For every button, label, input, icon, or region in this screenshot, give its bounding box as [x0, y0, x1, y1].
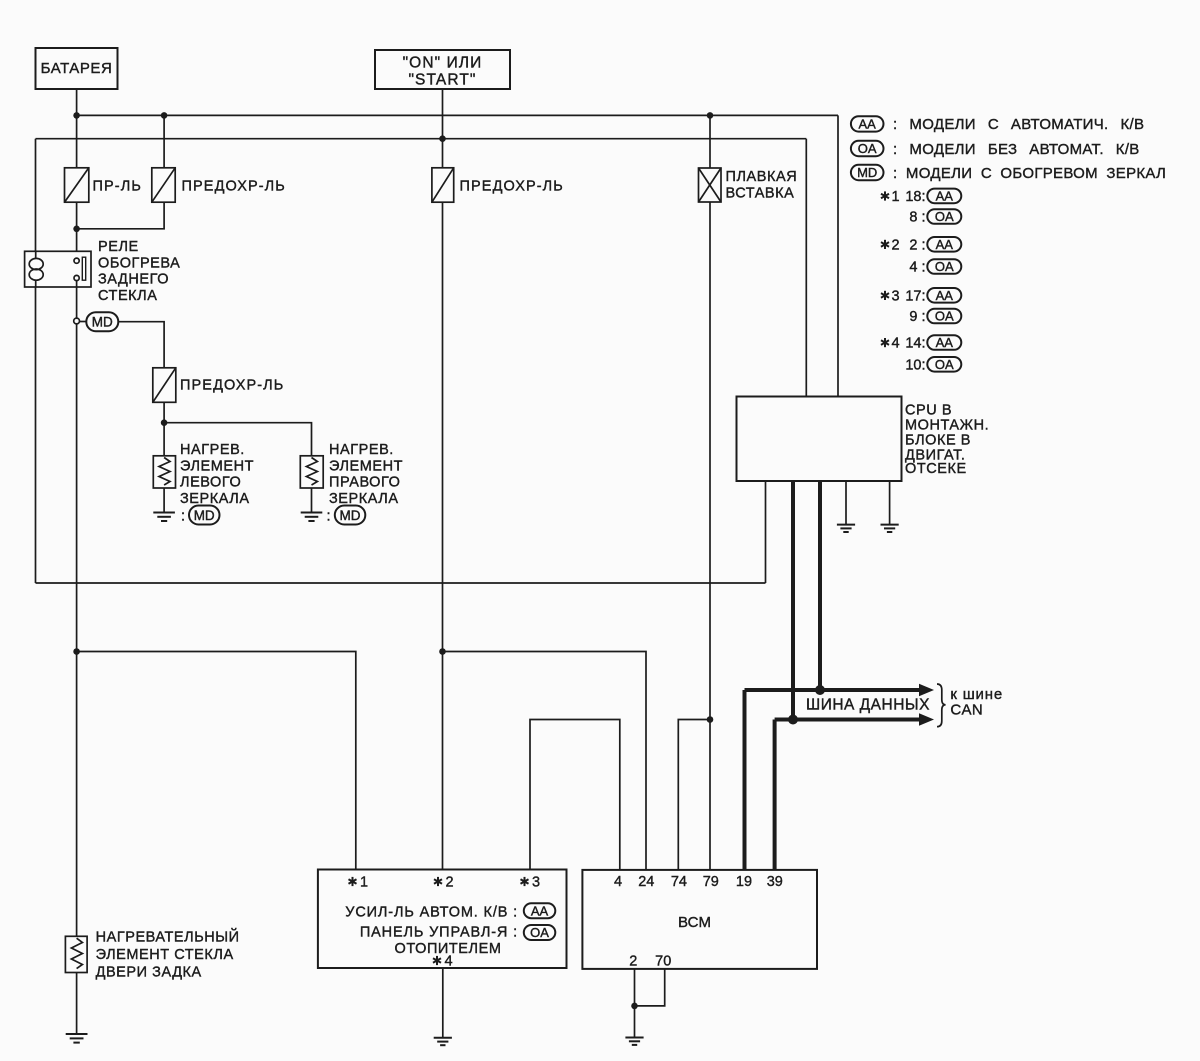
- svg-text:17:: 17:: [905, 288, 925, 304]
- curly brace CAN: [937, 684, 946, 727]
- wire net amp pin3 to BCM pin4: [530, 720, 620, 870]
- wire main defogger feed down: [76, 324, 78, 937]
- wire MD branch to mirror fuse: [118, 322, 164, 368]
- MD oval tag at relay: [86, 312, 118, 331]
- star legend 2: [881, 240, 889, 249]
- svg-text:ЗЕРКАЛА: ЗЕРКАЛА: [180, 491, 250, 507]
- svg-text:4: 4: [445, 954, 453, 970]
- wire rear element ground lead: [76, 973, 78, 1035]
- wire bottom return horizontal: [36, 582, 766, 584]
- svg-text:MD: MD: [92, 315, 113, 330]
- svg-text:ПРЕДОХР-ЛЬ: ПРЕДОХР-ЛЬ: [180, 378, 284, 394]
- fuse F3 PREDOHR-L ignition: [432, 168, 454, 202]
- fuse F2 PREDOHR-L: [152, 168, 175, 202]
- svg-text:1: 1: [360, 875, 368, 891]
- wire CAN upper drop to BCM pin19: [743, 690, 747, 870]
- svg-text:AA: AA: [936, 288, 954, 303]
- legend pin3 AA oval: [927, 288, 961, 303]
- svg-text:НАГРЕВ.: НАГРЕВ.: [180, 442, 245, 458]
- star amp pin2: [434, 877, 442, 886]
- svg-text:10:: 10:: [905, 357, 925, 373]
- ground amp: [434, 1038, 452, 1045]
- node junction defogger feed to amp: [73, 648, 80, 655]
- svg-text:ПРЕДОХР-ЛЬ: ПРЕДОХР-ЛЬ: [182, 179, 286, 195]
- ignition box ON/START: [375, 50, 510, 89]
- svg-text:OA: OA: [935, 309, 954, 324]
- wire branch to right mirror: [164, 423, 311, 456]
- svg-text:ПЛАВКАЯ: ПЛАВКАЯ: [726, 169, 798, 185]
- relay rear window defogger: [25, 251, 91, 287]
- svg-text:СТЕКЛА: СТЕКЛА: [98, 288, 157, 304]
- legend AA oval: [851, 116, 884, 131]
- legend pin2 AA oval: [927, 237, 961, 252]
- wire ignition drop: [442, 89, 444, 139]
- svg-text:19: 19: [736, 874, 752, 890]
- arrowhead CAN upper: [919, 684, 934, 696]
- legend MD oval: [851, 165, 884, 180]
- amplifier box A/C amp: [318, 870, 567, 969]
- star amp pin3: [521, 877, 529, 886]
- star legend 4: [881, 338, 889, 347]
- svg-text:2: 2: [629, 954, 637, 970]
- wire jog to BCM pin74: [678, 720, 710, 870]
- svg-text:НАГРЕВАТЕЛЬНЫЙ: НАГРЕВАТЕЛЬНЫЙ: [96, 928, 240, 946]
- svg-text:БАТАРЕЯ: БАТАРЕЯ: [41, 60, 113, 77]
- svg-text:74: 74: [671, 874, 687, 890]
- svg-text:AA: AA: [936, 335, 954, 350]
- wire branch to amp pin *1: [77, 652, 356, 870]
- svg-text:ОТСЕКЕ: ОТСЕКЕ: [905, 461, 967, 477]
- ground left mirror: [153, 513, 175, 522]
- svg-text:14:: 14:: [905, 336, 925, 352]
- wire right mirror ground lead: [311, 488, 313, 513]
- node junction CAN-L: [788, 715, 798, 725]
- wire CPU ground lead 1: [845, 481, 847, 525]
- wire CPU pin riser: [765, 481, 767, 583]
- svg-text:"ON" ИЛИ: "ON" ИЛИ: [403, 55, 483, 72]
- svg-text:AA: AA: [531, 903, 549, 918]
- svg-text:ПР-ЛЬ: ПР-ЛЬ: [93, 179, 142, 195]
- svg-text:2: 2: [892, 237, 900, 253]
- node junction CAN-H: [815, 685, 825, 695]
- svg-text::: :: [327, 509, 331, 525]
- svg-text:ПАНЕЛЬ УПРАВЛ-Я :: ПАНЕЛЬ УПРАВЛ-Я :: [360, 925, 518, 941]
- arrowhead CAN lower: [919, 713, 934, 725]
- fuse F1 PR-L: [65, 168, 89, 202]
- node junction battery bus at F2: [161, 112, 168, 119]
- relay coil: [29, 251, 43, 287]
- svg-text:CAN: CAN: [950, 702, 983, 719]
- wire bus2 horizontal ignition feed: [36, 138, 807, 140]
- svg-text:ЗЕРКАЛА: ЗЕРКАЛА: [329, 491, 399, 507]
- svg-text:24: 24: [638, 874, 654, 890]
- wire battery drop: [76, 89, 78, 115]
- node junction ignition branch to BCM pin24: [439, 648, 446, 655]
- resistor rear window heating element: [65, 936, 87, 972]
- wire CAN lower drop to BCM pin39: [773, 720, 777, 870]
- fusible link FL: [699, 168, 722, 202]
- svg-text:"START": "START": [408, 72, 476, 89]
- svg-text:9 :: 9 :: [909, 309, 925, 325]
- ground CPU 2: [881, 525, 899, 532]
- wire fuse F1 bottom lead to relay: [76, 202, 78, 258]
- ground BCM: [625, 1038, 643, 1045]
- svg-text:OA: OA: [935, 357, 954, 372]
- MD oval tag right mirror: [335, 506, 366, 525]
- svg-text:8 :: 8 :: [909, 210, 925, 226]
- CPU block engine room: [737, 397, 902, 482]
- svg-text:4: 4: [892, 336, 900, 352]
- wire fuse F3 top lead: [442, 139, 444, 168]
- node junction fusible feed at pin74 jog: [707, 716, 714, 723]
- svg-text:79: 79: [703, 874, 719, 890]
- wire BCM pin2 ground lead: [634, 969, 636, 1038]
- svg-text:4 :: 4 :: [909, 260, 925, 276]
- svg-text:2: 2: [446, 875, 454, 891]
- svg-text:1: 1: [892, 189, 900, 205]
- wire CAN upper bus with arrow: [745, 688, 922, 692]
- wire branch to BCM pin24: [443, 652, 647, 870]
- star legend 3: [881, 291, 889, 300]
- node junction battery-relay: [73, 226, 80, 233]
- legend pin1 AA oval: [927, 189, 961, 204]
- svg-text:OA: OA: [935, 209, 954, 224]
- svg-text:OA: OA: [530, 925, 549, 940]
- wire BCM pin70 ground lead: [635, 969, 665, 1006]
- svg-text:ЛЕВОГО: ЛЕВОГО: [180, 475, 241, 491]
- ground CPU 1: [837, 525, 855, 532]
- wire CAN lower bus with arrow: [775, 718, 921, 722]
- svg-text:AA: AA: [936, 189, 954, 204]
- wire CAN-H thick from CPU: [818, 481, 822, 690]
- node junction ignition bus: [439, 135, 446, 142]
- svg-text:РЕЛЕ: РЕЛЕ: [98, 239, 139, 255]
- svg-text:: МОДЕЛИ БЕЗ АВТОМАТ. К/В: : МОДЕЛИ БЕЗ АВТОМАТ. К/В: [893, 141, 1140, 158]
- svg-text:: МОДЕЛИ С АВТОМАТИЧ. К/В: : МОДЕЛИ С АВТОМАТИЧ. К/В: [893, 116, 1144, 133]
- node junction battery bus at fusible link: [707, 112, 714, 119]
- wire fuse F3 bottom lead down to amp: [442, 202, 444, 869]
- relay contact points: [74, 257, 86, 280]
- svg-text::: :: [181, 509, 185, 525]
- wire bus1 drop to CPU: [837, 115, 839, 396]
- svg-text:MD: MD: [340, 508, 361, 523]
- wire fuse F2 top lead: [163, 115, 165, 167]
- wire fusible link bottom lead down to BCM pin79: [709, 202, 711, 870]
- wire fusible link top lead: [709, 115, 711, 168]
- legend OA oval: [851, 141, 884, 156]
- node junction battery bus at F1: [73, 112, 80, 119]
- svg-text:3: 3: [532, 875, 540, 891]
- svg-text:70: 70: [655, 954, 671, 970]
- svg-text:БЛОКЕ В: БЛОКЕ В: [905, 433, 971, 449]
- wire fuse F4 bottom lead: [163, 402, 165, 456]
- svg-text:AA: AA: [936, 237, 954, 252]
- wire MD splice link: [80, 321, 87, 323]
- legend pin1 OA oval: [927, 209, 961, 224]
- wire fuse F1 top lead: [76, 115, 78, 167]
- svg-text:ЭЛЕМЕНТ: ЭЛЕМЕНТ: [180, 458, 254, 474]
- svg-text:к шине: к шине: [950, 686, 1003, 703]
- star amp pin4: [433, 956, 441, 965]
- node junction BCM ground: [631, 1003, 638, 1010]
- svg-text:ДВЕРИ ЗАДКА: ДВЕРИ ЗАДКА: [96, 965, 202, 981]
- resistor right mirror heater element: [300, 456, 323, 488]
- svg-text:УСИЛ-ЛЬ АВТОМ. К/В :: УСИЛ-ЛЬ АВТОМ. К/В :: [345, 905, 518, 921]
- MD oval tag left mirror: [189, 506, 220, 525]
- svg-text:2 :: 2 :: [909, 237, 925, 253]
- wire CPU ground lead 2: [889, 481, 891, 525]
- svg-text:MD: MD: [857, 165, 877, 180]
- svg-text:ПРЕДОХР-ЛЬ: ПРЕДОХР-ЛЬ: [460, 179, 564, 195]
- svg-text:3: 3: [892, 288, 900, 304]
- svg-text:: МОДЕЛИ С ОБОГРЕВОМ ЗЕРКАЛ: : МОДЕЛИ С ОБОГРЕВОМ ЗЕРКАЛ: [893, 165, 1166, 182]
- svg-text:18:: 18:: [905, 189, 925, 205]
- battery box: [36, 48, 118, 89]
- svg-text:МОНТАЖН.: МОНТАЖН.: [905, 418, 989, 434]
- amp OA oval: [524, 925, 556, 940]
- svg-text:ВСТАВКА: ВСТАВКА: [726, 186, 795, 202]
- fuse F4 mirror heater: [153, 368, 176, 403]
- wire relay contact to switch lead: [76, 281, 78, 319]
- wire CAN-L thick from CPU: [791, 481, 795, 720]
- wire amp pin4 ground lead: [442, 968, 444, 1038]
- svg-text:AA: AA: [859, 117, 877, 132]
- amp AA oval: [524, 903, 556, 918]
- resistor left mirror heater element: [153, 456, 175, 488]
- ground right mirror: [301, 513, 323, 522]
- svg-text:39: 39: [767, 874, 783, 890]
- svg-text:CPU В: CPU В: [905, 403, 952, 419]
- svg-text:ШИНА ДАННЫХ: ШИНА ДАННЫХ: [806, 697, 930, 714]
- BCM box: [582, 870, 817, 969]
- node junction mirror split: [161, 419, 168, 426]
- star legend 1: [881, 191, 889, 200]
- svg-text:ПРАВОГО: ПРАВОГО: [329, 475, 400, 491]
- svg-text:ЭЛЕМЕНТ СТЕКЛА: ЭЛЕМЕНТ СТЕКЛА: [96, 947, 234, 963]
- wire coil feed left vertical: [35, 139, 37, 583]
- wire left mirror ground lead: [163, 488, 165, 513]
- legend pin4 AA oval: [927, 335, 961, 350]
- svg-text:ЭЛЕМЕНТ: ЭЛЕМЕНТ: [329, 458, 403, 474]
- svg-text:ОБОГРЕВА: ОБОГРЕВА: [98, 255, 180, 271]
- wire fuse F2 bottom lead: [77, 202, 165, 229]
- legend pin4 OA oval: [927, 357, 961, 372]
- svg-text:MD: MD: [194, 508, 215, 523]
- svg-text:4: 4: [614, 874, 622, 890]
- wire bus2 drop to CPU: [805, 139, 807, 397]
- node MD splice circle: [74, 318, 80, 324]
- svg-text:НАГРЕВ.: НАГРЕВ.: [329, 442, 394, 458]
- wire bus1 horizontal battery feed: [77, 114, 838, 116]
- svg-text:ЗАДНЕГО: ЗАДНЕГО: [98, 272, 169, 288]
- svg-text:OA: OA: [858, 141, 877, 156]
- star amp pin1: [349, 877, 357, 886]
- svg-text:OA: OA: [935, 259, 954, 274]
- legend pin3 OA oval: [927, 309, 961, 324]
- ground rear element: [66, 1034, 88, 1043]
- svg-text:ВСМ: ВСМ: [678, 914, 711, 931]
- legend pin2 OA oval: [927, 259, 961, 274]
